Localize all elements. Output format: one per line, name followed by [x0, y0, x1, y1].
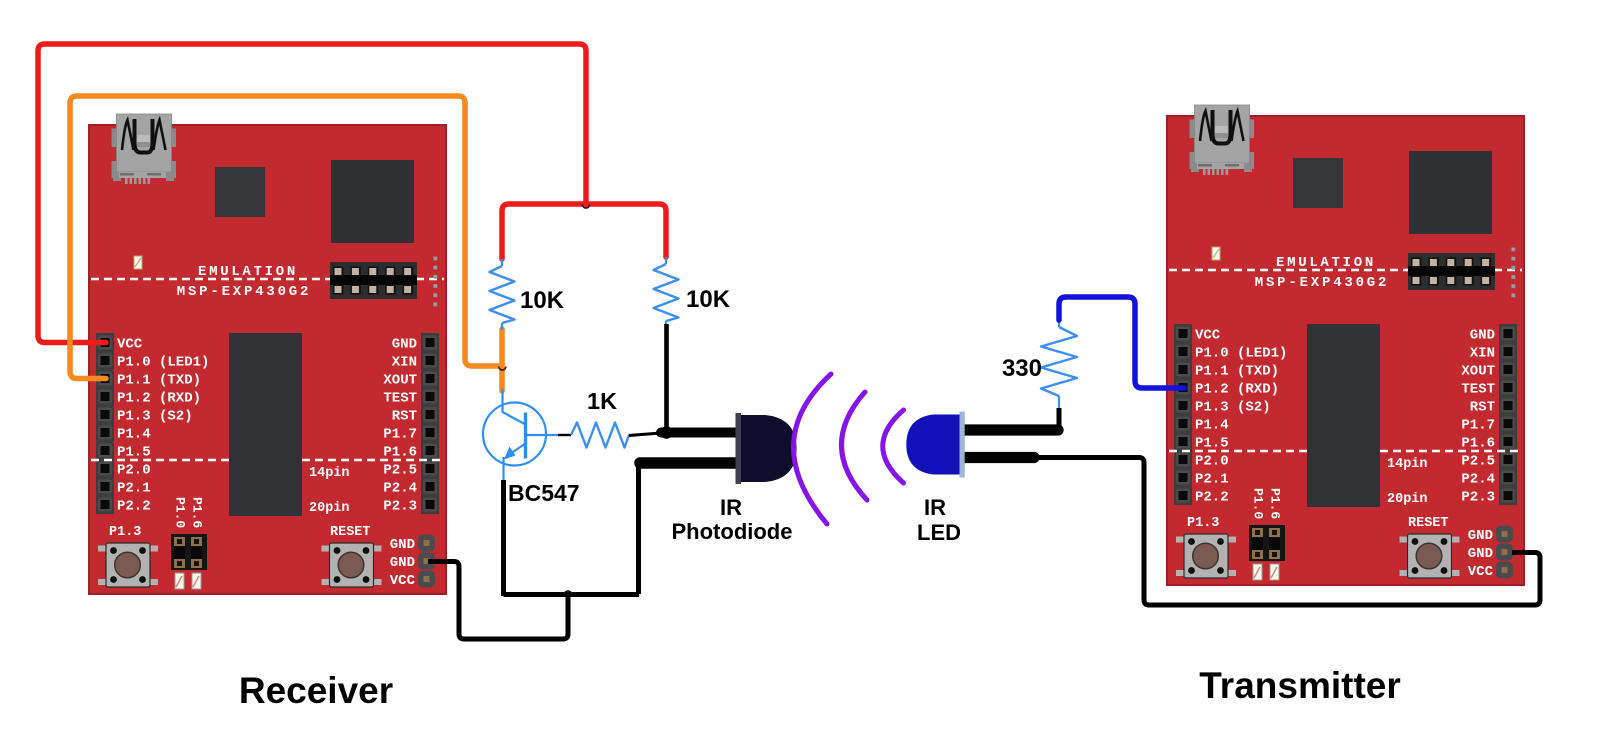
emitter arrow of Q1	[504, 447, 516, 460]
wire black R3 to photodiode anode lead	[629, 433, 661, 436]
IR wave arc 2	[841, 392, 867, 500]
resistor R1 10K (left)	[490, 259, 515, 330]
svg-text:10K: 10K	[520, 287, 565, 314]
wire black photodiode cathode down to ground bus	[636, 463, 641, 594]
wire black LED anode stub to 330	[1057, 408, 1062, 430]
photodiode D1 cathode lead	[640, 457, 745, 469]
svg-text:IR: IR	[924, 495, 946, 520]
wire red rail across 10K resistors	[502, 204, 666, 259]
svg-text:1K: 1K	[587, 388, 617, 414]
Receiver LaunchPad board MSP-EXP430G2	[89, 114, 446, 594]
wire black LED cathode to transmitter GND	[1030, 458, 1540, 606]
wire black Q1 base stub	[558, 434, 571, 436]
svg-text:BC547: BC547	[508, 480, 580, 506]
wire orange P1.1 TXD (receiver P1.1 to 10K bottom)	[70, 96, 500, 379]
junction on red rail	[583, 205, 590, 209]
wire black receiver GND to ground bus	[428, 562, 568, 640]
IR wave arc 3	[883, 410, 904, 483]
IR LED D2 body	[906, 415, 963, 475]
transistor Q1 BC547	[483, 389, 560, 481]
Transmitter LaunchPad board MSP-EXP430G2	[1167, 105, 1524, 585]
svg-text:330: 330	[1002, 355, 1042, 382]
svg-text:IR: IR	[720, 495, 742, 520]
photodiode D1 body	[736, 413, 742, 484]
resistor R3 1K	[571, 423, 629, 448]
wire black ground bus (emitter to photodiode cathode)	[504, 592, 640, 597]
svg-text:10K: 10K	[686, 286, 731, 313]
IR LED D2 anode lead	[960, 424, 1058, 435]
svg-text:Receiver: Receiver	[239, 670, 393, 711]
wire blue 330 to transmitter P1.2 RXD	[1059, 297, 1184, 388]
wire black Q1 emitter down	[501, 480, 506, 596]
wire black R2 bottom to photodiode anode	[664, 324, 669, 431]
photodiode D1 anode lead	[661, 428, 745, 438]
IR LED D2 cathode lead	[960, 452, 1034, 463]
IR wave arc 1	[793, 374, 831, 524]
wire red VCC (receiver VCC to 10K top rail)	[38, 44, 586, 343]
junction on orange wire	[499, 367, 506, 371]
resistor R4 330	[1041, 319, 1077, 408]
svg-text:LED: LED	[917, 520, 961, 545]
resistor R2 10K (right)	[654, 257, 679, 330]
svg-text:Transmitter: Transmitter	[1199, 665, 1401, 706]
wire orange 10K bottom to transistor collector	[499, 329, 505, 391]
svg-text:Photodiode: Photodiode	[672, 519, 793, 544]
junction on ground bus	[565, 591, 572, 595]
